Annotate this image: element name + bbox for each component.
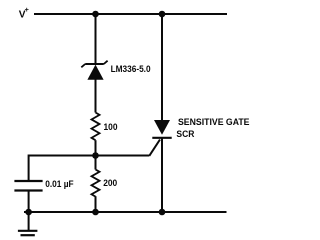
wire V+ rail to zener cathode [95, 14, 97, 64]
junction dot top-right [159, 11, 166, 18]
svg-text:100: 100 [104, 122, 118, 132]
junction dot bottom-left [25, 209, 32, 216]
svg-text:SENSITIVE GATE: SENSITIVE GATE [178, 117, 250, 128]
ground [18, 212, 38, 235]
node V+ label [19, 5, 29, 20]
svg-text:200: 200 [103, 178, 117, 188]
junction dot mid node [92, 152, 99, 159]
junction dot bottom-mid [92, 209, 99, 216]
svg-text:SCR: SCR [176, 129, 194, 140]
wire capacitor branch down from mid rail [28, 155, 30, 181]
resistor 100 [92, 113, 100, 141]
wire resistor 200 to bottom rail [95, 196, 97, 212]
svg-text:LM336-5.0: LM336-5.0 [111, 64, 151, 74]
svg-text:+: + [25, 5, 29, 14]
SCR Q1 sensitive gate [152, 120, 171, 138]
resistor 200 [92, 170, 100, 197]
wire zener anode to resistor R1 [95, 80, 97, 113]
wire top rail [34, 13, 227, 15]
wire SCR cathode to bottom rail [161, 138, 163, 212]
junction dot top-left [92, 11, 99, 18]
label SENSITIVE GATE SCR [176, 117, 249, 140]
wire capacitor to bottom rail [28, 191, 30, 213]
junction dot bottom-right [159, 209, 166, 216]
wire mid node to resistor 200 [95, 156, 97, 170]
wire SCR gate lead [149, 140, 160, 156]
wire resistor 100 to mid node [95, 140, 97, 155]
wire V+ rail to SCR anode [161, 14, 163, 120]
capacitor C1 0.01uF [14, 181, 42, 191]
wire bottom rail [24, 211, 227, 213]
wire mid rail [29, 155, 150, 157]
zener diode LM336-5.0 [81, 61, 107, 80]
svg-text:0.01 µF: 0.01 µF [45, 179, 74, 189]
